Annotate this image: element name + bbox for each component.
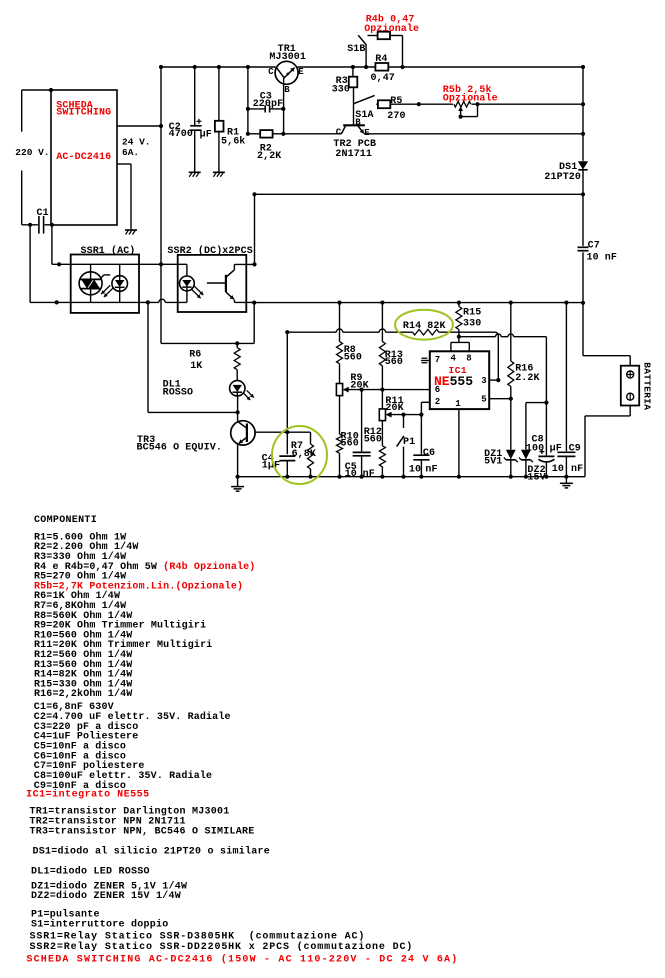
svg-text:nF: nF [571, 464, 583, 475]
svg-text:E: E [364, 128, 370, 138]
svg-text:330: 330 [332, 85, 350, 96]
svg-text:R15: R15 [463, 307, 481, 318]
svg-text:S1=interruttore doppio: S1=interruttore doppio [31, 918, 169, 930]
svg-text:R14 82K: R14 82K [403, 321, 446, 332]
svg-text:10: 10 [552, 464, 564, 475]
svg-text:560: 560 [344, 352, 362, 363]
svg-text:3: 3 [481, 376, 487, 386]
svg-text:MJ3001: MJ3001 [269, 52, 306, 63]
svg-text:2,2K: 2,2K [257, 151, 281, 162]
svg-text:Opzionale: Opzionale [364, 23, 419, 35]
svg-text:B: B [355, 118, 361, 128]
svg-text:DZ2=diodo ZENER 15V 1/4W: DZ2=diodo ZENER 15V 1/4W [31, 890, 181, 902]
svg-text:SSR2 (DC)x2PCS: SSR2 (DC)x2PCS [167, 245, 252, 257]
svg-text:SSR2=Relay Statico SSR-DD2205H: SSR2=Relay Statico SSR-DD2205HK x 2PCS (… [30, 941, 414, 953]
svg-text:SWITCHING: SWITCHING [56, 108, 111, 119]
svg-text:6A.: 6A. [122, 147, 139, 158]
svg-text:10: 10 [345, 469, 357, 480]
svg-text:560: 560 [364, 435, 382, 446]
svg-text:20K: 20K [385, 403, 403, 414]
svg-text:μF: μF [200, 130, 212, 141]
svg-text:SCHEDA SWITCHING AC-DC2416 (15: SCHEDA SWITCHING AC-DC2416 (150W - AC 11… [26, 954, 458, 966]
svg-text:220 V.: 220 V. [15, 147, 49, 158]
svg-text:IC1=integrato NE555: IC1=integrato NE555 [26, 789, 150, 801]
svg-text:2N1711: 2N1711 [335, 149, 372, 160]
svg-text:DL1=diodo LED ROSSO: DL1=diodo LED ROSSO [31, 865, 150, 877]
svg-text:C: C [268, 67, 274, 77]
svg-text:Opzionale: Opzionale [443, 93, 498, 105]
svg-text:DS1=diodo al silicio 21PT20 o: DS1=diodo al silicio 21PT20 o similare [33, 845, 271, 857]
svg-text:R4: R4 [375, 54, 387, 65]
svg-text:C7: C7 [588, 241, 600, 252]
svg-text:220pF: 220pF [253, 99, 284, 110]
svg-text:μF: μF [550, 444, 562, 455]
svg-text:7: 7 [435, 355, 441, 365]
svg-text:C9: C9 [569, 444, 581, 455]
svg-text:P1: P1 [403, 437, 415, 448]
svg-text:SSR1=Relay Statico SSR-D3805HK: SSR1=Relay Statico SSR-D3805HK (commutaz… [30, 931, 366, 943]
svg-text:nF: nF [425, 464, 437, 475]
svg-text:C1: C1 [37, 208, 49, 219]
svg-text:24 V.: 24 V. [122, 136, 151, 147]
svg-text:10 nF: 10 nF [587, 252, 618, 263]
svg-text:TR3=transistor NPN, BC546 O SI: TR3=transistor NPN, BC546 O SIMILARE [30, 825, 255, 837]
svg-text:1: 1 [455, 399, 461, 409]
svg-text:330: 330 [463, 319, 481, 330]
svg-text:10: 10 [409, 464, 421, 475]
svg-text:560: 560 [341, 439, 359, 450]
svg-text:100: 100 [526, 444, 544, 455]
svg-text:20K: 20K [350, 380, 368, 391]
svg-text:COMPONENTI: COMPONENTI [34, 515, 97, 526]
svg-text:R6: R6 [189, 349, 201, 360]
svg-text:4700: 4700 [169, 129, 193, 140]
svg-text:R16=2,2kOhm 1/4W: R16=2,2kOhm 1/4W [34, 688, 132, 700]
svg-text:5: 5 [481, 395, 487, 405]
svg-text:BC546 O EQUIV.: BC546 O EQUIV. [137, 443, 222, 454]
svg-text:C6: C6 [423, 448, 435, 459]
svg-text:4: 4 [451, 353, 457, 363]
svg-text:5V1: 5V1 [484, 457, 502, 468]
svg-text:270: 270 [387, 111, 405, 122]
svg-text:B: B [284, 85, 290, 95]
svg-text:560: 560 [385, 357, 403, 368]
svg-text:BATTERIA: BATTERIA [642, 362, 653, 410]
svg-text:1μF: 1μF [262, 461, 280, 472]
svg-text:21PT20: 21PT20 [544, 172, 581, 183]
svg-text:R5: R5 [390, 96, 402, 107]
svg-text:0,47: 0,47 [371, 73, 395, 84]
svg-text:8: 8 [466, 353, 472, 363]
svg-text:NE555: NE555 [434, 374, 473, 389]
svg-text:C: C [336, 127, 342, 137]
svg-text:2: 2 [435, 397, 441, 407]
svg-text:1K: 1K [190, 361, 202, 372]
svg-text:nF: nF [363, 469, 375, 480]
svg-text:6,8K: 6,8K [292, 449, 316, 460]
svg-text:5,6k: 5,6k [221, 135, 245, 147]
svg-text:ROSSO: ROSSO [163, 387, 194, 398]
svg-text:15V: 15V [527, 473, 545, 484]
svg-text:SSR1 (AC): SSR1 (AC) [81, 245, 136, 257]
svg-text:S1B: S1B [347, 44, 365, 55]
svg-text:2.2K: 2.2K [515, 373, 539, 384]
svg-text:E: E [298, 67, 304, 77]
svg-text:AC-DC2416: AC-DC2416 [56, 152, 111, 163]
